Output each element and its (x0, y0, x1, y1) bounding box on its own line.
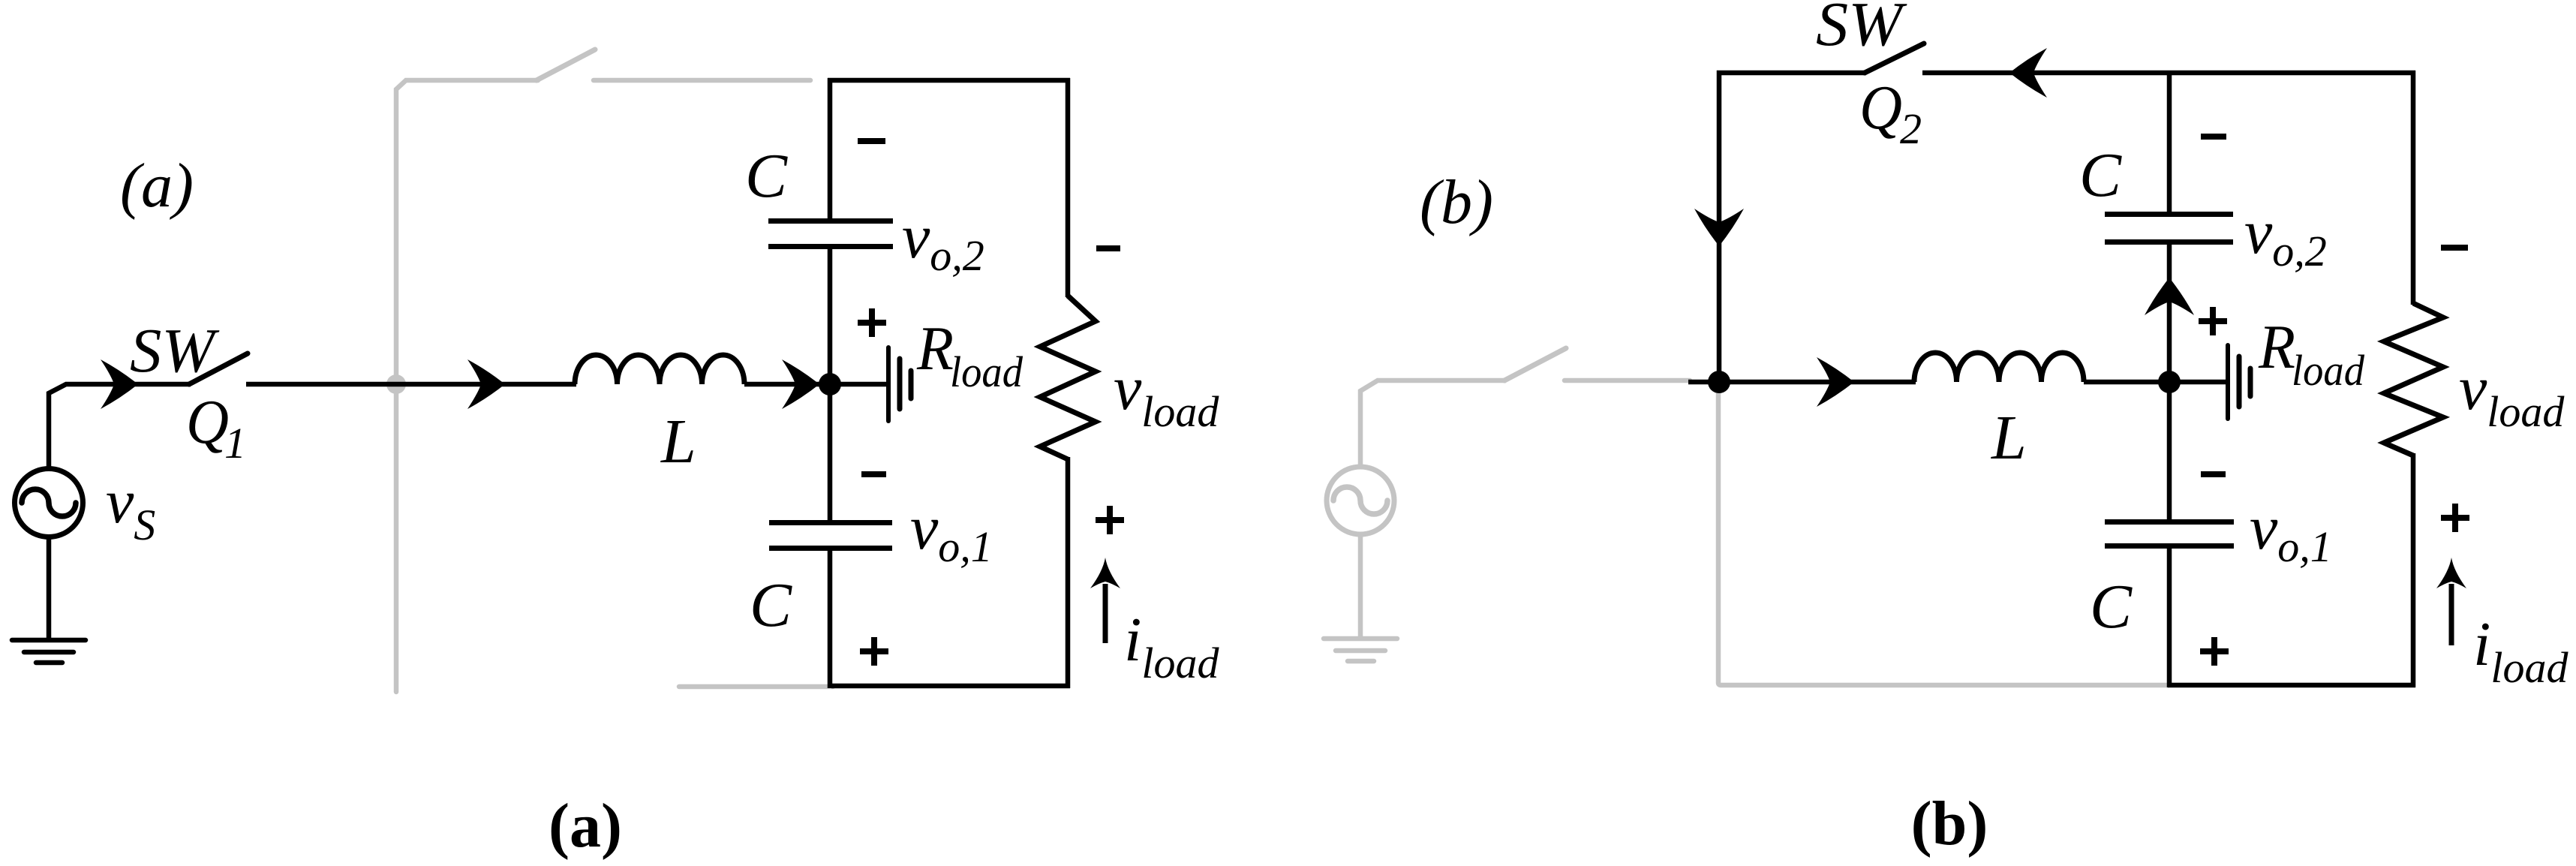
current arrow before inductor (a) (467, 359, 505, 409)
svg-text:R: R (916, 314, 954, 383)
node dot (a) (819, 373, 841, 395)
capacitor branch upper wire (a) (828, 78, 833, 219)
plus sign right bottom (b) (2441, 504, 2469, 532)
gray switch blade Q2-off (a) (537, 50, 595, 80)
capacitor C upper plates (a) (768, 218, 893, 249)
minus sign right top (a) (1096, 245, 1120, 251)
svg-text:SW: SW (1816, 0, 1907, 59)
svg-text:C: C (750, 570, 792, 640)
R_load stub wire (b) (2169, 380, 2226, 385)
wire node up to switch corner (b) (1719, 73, 1866, 383)
capacitor C lower plates (b) (2105, 519, 2234, 549)
gray ground (b) (1324, 639, 1397, 661)
svg-text:(a): (a) (120, 151, 194, 221)
capacitor branch middle wire (a) (828, 249, 833, 521)
svg-text:(b): (b) (1420, 167, 1493, 237)
gray wire source to ground (b) (1358, 534, 1363, 638)
capacitor C upper plates (b) (2105, 212, 2233, 245)
plus sign below lower cap (b) (2200, 637, 2229, 666)
svg-text:SW: SW (130, 316, 220, 386)
wire inductor to cap node (b) (2084, 380, 2172, 385)
down arrow on left vertical (b) (1694, 209, 1744, 246)
minus sign above upper cap (a) (858, 138, 885, 144)
top rail (a) (828, 78, 1070, 83)
bottom rail black (b) (2168, 683, 2415, 688)
capacitor C lower plates (a) (769, 520, 892, 551)
node dot (b) (2158, 371, 2181, 393)
i_load arrow (a) (1090, 558, 1120, 643)
gray switch blade Q1-off (b) (1504, 348, 1566, 380)
wire switch to inductor (a) (246, 382, 576, 387)
svg-text:load: load (950, 347, 1023, 396)
up arrow below upper cap (b) (2145, 278, 2194, 315)
wire inductor to node (a) (744, 382, 827, 387)
svg-text:load: load (2292, 346, 2365, 395)
wire source to switch (a) (49, 384, 191, 470)
bottom rail black (a) (831, 684, 1070, 689)
left arrow on top wire (b) (2009, 48, 2047, 98)
right rail upper (a) (1066, 78, 1071, 297)
svg-text:R: R (2258, 312, 2295, 382)
gray bottom rail segment (a) (679, 684, 833, 690)
plus sign below lower cap (a) (860, 637, 888, 666)
inductor L (b) (1914, 353, 2084, 382)
svg-text:C: C (745, 141, 788, 211)
inductor L (a) (575, 355, 744, 384)
gray voltage source (b) (1327, 467, 1394, 534)
gray wire: vertical branch and top rail to switch (a) (396, 80, 538, 692)
svg-text:(b): (b) (1911, 789, 1988, 858)
plus sign right bottom (a) (1096, 506, 1124, 534)
top wire after blade (b) (1922, 71, 2415, 76)
svg-text:C: C (2079, 140, 2122, 210)
svg-text:L: L (1991, 403, 2027, 473)
voltage source vS (a) (15, 469, 83, 537)
switch blade SW Q2 (b) (1865, 44, 1924, 73)
i_load arrow (b) (2436, 558, 2466, 645)
minus sign above upper cap (b) (2201, 134, 2226, 140)
gray wire blade to node (b) (1565, 378, 1690, 383)
R_load chassis symbol (a) (888, 347, 911, 421)
plus sign below upper cap (b) (2199, 307, 2227, 335)
capacitor branch middle wire (b) (2167, 245, 2172, 520)
current arrow after node (b) (1817, 357, 1854, 407)
minus sign right top (b) (2441, 245, 2468, 251)
minus sign above lower cap (a) (861, 471, 886, 477)
svg-text:(a): (a) (549, 791, 622, 861)
gray wire node down to bottom rail (b) (1718, 382, 2169, 685)
svg-text:C: C (2090, 572, 2133, 642)
right rail lower (b) (2411, 453, 2416, 687)
resistor R_load zigzag (a) (1040, 296, 1096, 459)
switch blade SW Q1 (a) (189, 353, 248, 384)
gray wire source to switch (b) (1360, 380, 1506, 468)
current arrow into switch (a) (101, 359, 138, 409)
main wire node to inductor (b) (1688, 380, 1916, 385)
capacitor branch lower wire (b) (2167, 549, 2172, 687)
right rail upper (b) (2411, 71, 2416, 305)
left node dot (b) (1708, 371, 1730, 393)
R_load chassis symbol (b) (2228, 345, 2250, 419)
right rail lower (a) (1066, 457, 1071, 688)
gray node dot (a) (386, 374, 406, 394)
plus sign below upper cap (a) (858, 308, 886, 337)
ground (a) (12, 640, 86, 663)
svg-text:L: L (660, 407, 696, 477)
minus sign above lower cap (b) (2201, 471, 2226, 477)
wire source to ground (a) (47, 536, 52, 639)
resistor R_load zigzag (b) (2384, 303, 2443, 456)
gray wire: top rail after blade (a) (594, 78, 810, 83)
capacitor branch lower wire (a) (828, 551, 833, 688)
capacitor branch upper wire (b) (2167, 71, 2172, 212)
R_load stub wire (a) (830, 382, 887, 387)
current arrow into node (a) (782, 359, 819, 409)
